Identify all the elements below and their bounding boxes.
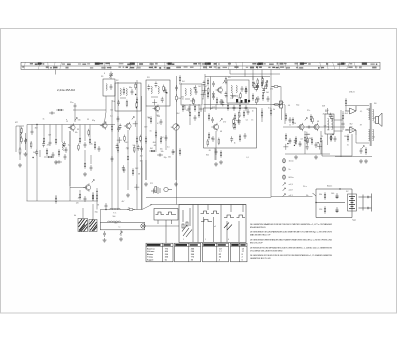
wire [355, 135, 357, 143]
IF strip fill A resistor 2 [225, 77, 227, 85]
svg-text:39: 39 [97, 205, 99, 207]
tuner top labels [43, 119, 107, 125]
wire mixer drop [175, 131, 177, 180]
table block 2 rows [191, 248, 195, 261]
capacitor C3 [49, 140, 52, 146]
legend bulb symbol 3 [283, 175, 286, 179]
wire [261, 77, 263, 81]
switch wafer SK3 contacts [224, 215, 245, 218]
ground [119, 237, 123, 241]
resistor R29 [252, 80, 254, 88]
IF1 value labels [147, 113, 179, 159]
resistor R34 [208, 113, 210, 121]
detector value labels [211, 115, 253, 144]
svg-text:68: 68 [138, 174, 140, 176]
svg-text:3k9: 3k9 [182, 106, 185, 108]
wire long bus B [117, 82, 119, 210]
osc can interior fill resistor 2 [126, 100, 128, 108]
svg-text:4: 4 [228, 239, 229, 241]
ferrite aerial coil L1 [20, 132, 21, 139]
antenna fill junction 3 [26, 139, 27, 140]
S5 can interior fill wire stub 2 [232, 93, 234, 99]
S3 can fill wire stub 4 [154, 99, 156, 105]
wire from detector [284, 104, 286, 107]
detector screening box [204, 108, 257, 148]
wire [84, 125, 86, 142]
legend bulb symbol 1 [283, 159, 286, 163]
wire collector rail bottom [356, 142, 369, 144]
S3 can interior fill 2 capacitor 1 [161, 97, 164, 103]
oscillator coil L5 [126, 88, 127, 95]
wire riser to strip 3 [252, 70, 254, 81]
wire [43, 125, 45, 137]
resistor R14 [132, 168, 134, 176]
ground [294, 155, 298, 159]
wire [120, 230, 122, 236]
resistor R36 [234, 113, 236, 121]
svg-text:Type: Type [352, 220, 356, 222]
capacitor C46 [105, 203, 108, 209]
audio fill extra wire stub 2 [306, 132, 308, 138]
svg-text:39: 39 [127, 149, 129, 151]
switch wafer SK2 contacts [201, 211, 220, 214]
wire [231, 95, 236, 97]
wire vertical AGC drop [36, 125, 38, 202]
wire riser to strip 5 [270, 70, 272, 80]
svg-text:68: 68 [154, 145, 156, 147]
svg-text:33: 33 [211, 138, 213, 140]
detector fill capacitor 6 [230, 136, 233, 142]
wire bottom AGC bus [27, 200, 99, 202]
resistor R3 [55, 137, 57, 145]
diode OA79 cluster [236, 99, 250, 103]
mid column fill wire stub 3 [136, 184, 138, 190]
resistor R38 [243, 110, 245, 118]
wire [320, 144, 322, 154]
IF coil L10 [231, 85, 232, 92]
svg-text:3k9: 3k9 [309, 138, 312, 140]
capacitor C43 electrolytic [336, 193, 339, 199]
svg-text:3k9: 3k9 [48, 135, 51, 137]
wire [327, 108, 329, 114]
capacitor C5 [84, 142, 87, 148]
output transformer secondary upper [373, 109, 374, 121]
resistor R31b [182, 104, 184, 112]
output transformer secondary lower [373, 129, 374, 141]
svg-text:DE WISSELSTROOM IMPEDANTIES ZI: DE WISSELSTROOM IMPEDANTIES ZIJN IN OHM … [250, 246, 332, 249]
detector fill resistor 5 [238, 110, 240, 118]
resistor R2 [43, 136, 45, 144]
potentiometer R59 (hatched) [89, 220, 97, 232]
mid column fill 2 wire stub 3 [134, 121, 136, 127]
svg-text:82p: 82p [164, 157, 167, 159]
resistor R32 [262, 93, 264, 101]
capacitor C30c [200, 106, 203, 112]
resistor R16 [155, 130, 157, 138]
pickup connector cluster [151, 187, 172, 195]
resistor R34a [270, 108, 272, 116]
test arrow at T11 [92, 180, 94, 183]
wire [189, 104, 191, 110]
svg-text:.04: .04 [300, 138, 303, 140]
ground [54, 160, 58, 164]
svg-text:2k2: 2k2 [161, 137, 164, 139]
detector fill resistor 2 [207, 139, 209, 147]
table block 2 header line [175, 246, 201, 248]
capacitor C37 [289, 138, 292, 144]
switch wafer SK1 box [154, 209, 178, 221]
resistor R60 [96, 193, 98, 201]
svg-text:1k: 1k [91, 144, 93, 146]
driver transformer S5 [325, 114, 334, 134]
oscillator coil L4 [120, 88, 121, 95]
svg-text:56k: 56k [78, 119, 81, 121]
wire AGC line to mixer [73, 109, 106, 111]
svg-text:Vol toon: Vol toon [147, 250, 154, 253]
audio fill extra capacitor 6 [306, 144, 309, 150]
table block 4 header fill [231, 244, 245, 246]
svg-text:8k2: 8k2 [350, 124, 353, 126]
detector fill resistor 7 [218, 138, 220, 146]
wire [284, 105, 286, 124]
mid column fill wire tick 3 [134, 186, 139, 188]
resistor R26 [207, 91, 209, 99]
wire branch right [271, 86, 281, 88]
ground [174, 182, 178, 186]
svg-text:120: 120 [76, 203, 79, 205]
IF strip gap fill B wire tick 3 [262, 87, 267, 89]
wire [342, 111, 344, 114]
svg-text:2k2: 2k2 [140, 156, 143, 158]
resistor R33a [261, 110, 263, 118]
wire [198, 104, 200, 110]
switch cell hatch marks [182, 225, 192, 237]
tuner fill junction 6 [32, 157, 33, 158]
capacitor C4 [65, 147, 68, 153]
svg-text:15: 15 [232, 97, 234, 99]
trimmer coil L3 [106, 84, 107, 91]
audio labels extra [288, 105, 325, 140]
legend bulb symbol 2 [283, 167, 286, 171]
wire [184, 105, 186, 110]
table block 3 rows [219, 248, 223, 261]
IF coil L11 [236, 85, 237, 92]
svg-text:2,24a 45/U02: 2,24a 45/U02 [57, 88, 75, 92]
capacitor C35 electrolytic [215, 149, 218, 155]
table block 3 divider [216, 243, 218, 262]
svg-text:27f: 27f [150, 183, 153, 185]
svg-text:10k: 10k [75, 132, 78, 134]
svg-text:5k6: 5k6 [113, 216, 116, 218]
transistor T7 AF preamp [297, 123, 304, 131]
resistor R51 [342, 113, 344, 121]
mid column fill capacitor 6 [122, 165, 125, 171]
table block 4 divider [239, 243, 241, 262]
measurement table block 2 frame [175, 243, 201, 262]
svg-text:Triang: Triang [147, 257, 153, 259]
svg-text:Afstem: Afstem [147, 253, 154, 256]
mid column fill capacitor 1 [137, 145, 140, 151]
svg-text:56k: 56k [161, 151, 164, 153]
wire long AF line [204, 104, 284, 106]
svg-text:5k6: 5k6 [168, 157, 171, 159]
wire [151, 96, 158, 98]
box top coil bumps [108, 221, 121, 222]
IF strip gap fill B junction 4 [267, 80, 268, 81]
IF coil L6 [151, 86, 152, 93]
wire [79, 125, 81, 137]
wire [127, 162, 129, 190]
junction [96, 191, 97, 192]
svg-text:6k8: 6k8 [345, 113, 348, 115]
svg-text:120: 120 [346, 130, 349, 132]
wire [90, 155, 92, 164]
wire [185, 98, 190, 100]
capacitor C39 [306, 126, 312, 129]
tick below strip [55, 70, 57, 75]
wire run upper [100, 209, 142, 211]
svg-text:6k8: 6k8 [114, 223, 117, 225]
mid column fill 2 wire stub 4 [118, 137, 120, 143]
ground [314, 155, 318, 159]
resistor R31 [252, 93, 254, 101]
junction [339, 188, 340, 189]
capacitor C26 [241, 86, 244, 92]
capacitor C30d [233, 105, 236, 111]
resistor R48 [311, 137, 313, 145]
svg-text:2k2: 2k2 [288, 141, 291, 143]
svg-text:10k: 10k [238, 102, 241, 104]
svg-text:5k6: 5k6 [171, 127, 174, 129]
svg-text:8: 8 [104, 73, 105, 75]
wire [105, 96, 107, 112]
wire bottom rail [335, 156, 372, 158]
capacitor C17 [165, 135, 168, 141]
wire bus to on-off switch [271, 195, 313, 197]
resistor R11 [136, 136, 138, 144]
capacitor C32 [238, 119, 241, 125]
wire [49, 125, 51, 141]
osc can interior fill resistor 3 [136, 101, 138, 109]
svg-text:470: 470 [270, 89, 273, 91]
resistor R25 [207, 78, 209, 86]
resistor R30 [261, 80, 263, 88]
resistor R23 [179, 75, 181, 83]
legend arrow symbol 6 [283, 194, 286, 197]
legend arrow symbol 5 [283, 188, 286, 191]
wire upper rail [230, 73, 280, 75]
S3 can interior fill 2 junction 2 [166, 92, 167, 93]
mid column fill capacitor 2 [119, 124, 122, 130]
svg-text:.04: .04 [148, 117, 151, 119]
svg-text:Koppel: Koppel [147, 259, 154, 261]
wire AF-AGC bus [146, 196, 271, 198]
transistor T11 AGC amplifier [83, 183, 90, 191]
output transformer primary lower [369, 129, 370, 141]
feedback loop box [322, 134, 352, 156]
mixer stage symbol [173, 124, 179, 130]
capacitor C23 [212, 81, 215, 87]
wire [92, 204, 94, 220]
capacitor C25 [221, 99, 224, 105]
capacitor C0 above T1 [74, 103, 77, 109]
tuner fill capacitor 2 [63, 141, 66, 147]
svg-text:8k2: 8k2 [367, 109, 370, 111]
svg-text:82p: 82p [95, 212, 98, 214]
capacitor C18 [172, 149, 175, 155]
capacitor C30b [188, 106, 191, 112]
strip right fill capacitor 1 [255, 85, 258, 91]
svg-text:6k8: 6k8 [153, 142, 156, 144]
resistor R31c [194, 104, 196, 112]
wire [165, 90, 167, 150]
svg-text:1n: 1n [289, 125, 291, 127]
wire T1 emitter long drop [69, 131, 71, 201]
resistor R31d [227, 103, 229, 111]
IF1 labels extra [144, 116, 162, 150]
switch wafer SK2 pins [193, 205, 214, 243]
wire [55, 125, 57, 138]
resistor R49 [320, 136, 322, 144]
wire [304, 131, 306, 135]
wire [145, 160, 147, 180]
transistor T6 AF detector [211, 123, 218, 131]
IF strip gap fill A wire tick 4 [202, 89, 207, 91]
resistor R1 [19, 147, 21, 155]
svg-text:3k9: 3k9 [144, 127, 147, 129]
svg-text:15: 15 [321, 136, 323, 138]
svg-text:1: 1 [205, 239, 206, 241]
detector fill resistor 4 [233, 118, 235, 126]
wire [105, 112, 107, 122]
IF coil L7 [158, 86, 159, 93]
switch cell1 parts [182, 208, 190, 228]
wire vertical [204, 74, 206, 112]
aerial trimmer can frame [103, 79, 115, 96]
resistor R19 [179, 148, 181, 156]
svg-text:120: 120 [307, 134, 310, 136]
ground [24, 152, 28, 156]
svg-text:0,1: 0,1 [157, 123, 160, 125]
capacitor C8 [90, 165, 93, 171]
resistor R10 [111, 124, 113, 132]
audio fill wire stub 7 [319, 144, 321, 150]
table block 4 rows [242, 248, 245, 261]
wire main RF line [27, 124, 115, 126]
S4 can interior fill wire tick 3 [190, 100, 195, 102]
audio fill wire tick 3 [283, 146, 288, 148]
wire vertical [210, 77, 212, 111]
resistor R24 [176, 94, 178, 102]
svg-text:4k7: 4k7 [122, 201, 125, 203]
wire to output base lower [334, 130, 341, 132]
capacitor C45 [84, 196, 87, 202]
capacitor C31 [212, 136, 215, 142]
svg-text:DE GEMETEN WAARDEN ZIJN MET BU: DE GEMETEN WAARDEN ZIJN MET BUISVOLTMETE… [250, 223, 332, 226]
svg-text:39: 39 [202, 99, 204, 101]
svg-text:8k2: 8k2 [177, 113, 180, 115]
resistor R47 [310, 114, 312, 122]
wire [374, 117, 376, 119]
svg-text:15: 15 [66, 121, 68, 123]
capacitor C11 [117, 116, 120, 122]
svg-text:1: 1 [183, 239, 184, 241]
svg-text:2k2: 2k2 [372, 137, 375, 139]
S4 can interior fill wire stub 3 [192, 98, 194, 104]
audio fill wire tick 7 [317, 146, 322, 148]
oscillator can frame [115, 83, 141, 111]
tuner fill capacitor 3 [42, 141, 45, 147]
svg-text:5k: 5k [273, 109, 275, 111]
transistor T8 driver [312, 123, 319, 131]
svg-text:130: 130 [344, 136, 347, 138]
wire [55, 195, 57, 201]
table block 1 header line [146, 246, 173, 248]
svg-text:80p: 80p [129, 87, 132, 89]
resistor R50 [345, 98, 347, 106]
S3 can fill resistor 3 [163, 85, 165, 93]
svg-text:5k6: 5k6 [266, 92, 269, 94]
resistor R42 [285, 113, 287, 121]
svg-text:82p: 82p [296, 105, 299, 107]
switch frame divider 2 [220, 205, 222, 243]
svg-text:EN AFGESTELD: EN AFGESTELD [250, 226, 266, 229]
resistor R35 [208, 132, 210, 140]
tuner fill capacitor 5 [35, 150, 38, 156]
switch unit frame [179, 205, 246, 243]
capacitor C15 [164, 87, 167, 93]
capacitor C13 [111, 156, 114, 162]
wire [155, 106, 157, 150]
measurement table block 1 frame [146, 243, 173, 262]
below detector labels [206, 150, 249, 159]
svg-text:68: 68 [220, 131, 222, 133]
table block 1 rows [147, 248, 169, 261]
driver transformer primary [328, 118, 329, 129]
battery B1 box [348, 194, 357, 211]
mid column fill 2 resistor 2 [133, 145, 135, 153]
wire box to switch frame [145, 225, 180, 227]
svg-text:8k2: 8k2 [150, 148, 153, 150]
transistor T5 IF2 amplifier [216, 86, 223, 94]
wire [374, 121, 376, 123]
antenna fill resistor 1 [21, 127, 23, 135]
svg-text:39k: 39k [319, 194, 322, 196]
svg-text:33: 33 [128, 208, 130, 210]
S3 can fill junction 1 [166, 92, 167, 93]
svg-text:33: 33 [77, 129, 79, 131]
strip right fill capacitor 3 [256, 84, 259, 90]
IF strip fill A capacitor 1 [221, 100, 224, 106]
S5 can interior fill wire tick 2 [230, 95, 235, 97]
legend arrow symbol 4 [283, 183, 286, 186]
test arrow below box [120, 232, 122, 235]
measurement table block 4 frame [231, 243, 248, 262]
wire [70, 187, 85, 189]
svg-text:1k: 1k [140, 160, 142, 162]
svg-text:39: 39 [193, 88, 195, 90]
IF strip gap fill B resistor 1 [253, 82, 255, 90]
IF transformer can S5a [227, 80, 249, 103]
svg-text:33: 33 [87, 119, 89, 121]
resistor R31e [239, 103, 241, 111]
trimmer capacitor above S1 can [109, 72, 113, 80]
svg-text:120: 120 [319, 209, 322, 211]
IF strip fill B capacitor 3 [261, 80, 264, 86]
svg-text:GEMETEN BIJ 25 GR: GEMETEN BIJ 25 GR [250, 258, 271, 260]
strip right fill resistor 2 [255, 97, 257, 105]
table block 1 header fill [147, 244, 171, 246]
